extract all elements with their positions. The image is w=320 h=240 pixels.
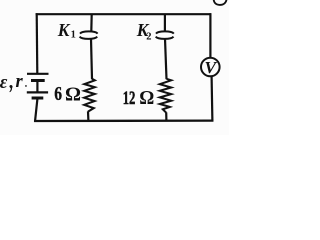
wire left (top segment, from top-left corner to battery)	[36, 13, 39, 73]
stray speck after r	[25, 85, 27, 87]
branch 1 wire (switch K1 to resistor)	[91, 39, 92, 80]
switch K1 bottom arc	[80, 37, 98, 39]
switch K1 top arc	[80, 31, 98, 33]
stray letter fragment (bottom of a 'g') at top-right	[214, 0, 227, 5]
wire between battery cells	[36, 81, 38, 93]
switch K2 bottom arc	[156, 37, 174, 39]
svg-text:r: r	[16, 72, 24, 92]
battery E (cell 2 long plate)	[27, 91, 48, 93]
svg-text:Ω: Ω	[65, 84, 81, 106]
switch K2 top arc	[156, 31, 174, 33]
branch 2 wire (top wire to switch K2)	[164, 14, 166, 31]
svg-text:6: 6	[54, 82, 62, 104]
voltmeter V circle	[201, 58, 220, 77]
svg-text:ε: ε	[0, 73, 8, 93]
battery E (cell 1 long plate)	[27, 73, 49, 75]
comma of battery label	[9, 85, 12, 92]
wire left (bottom segment, battery to bottom-left corner)	[35, 98, 38, 122]
wire top	[36, 13, 212, 15]
resistor R1 6 ohm zigzag	[84, 79, 95, 112]
battery E (cell 1 short thick plate)	[31, 79, 45, 82]
svg-text:K: K	[57, 20, 71, 40]
svg-text:1: 1	[71, 30, 76, 41]
branch 2 wire (resistor to bottom wire)	[165, 112, 167, 121]
branch 2 wire (switch K2 to resistor)	[165, 39, 167, 80]
wire right (bottom, voltmeter to bottom-right corner)	[211, 77, 214, 122]
resistor R2 12 ohm zigzag	[160, 79, 171, 113]
battery E (cell 2 short thick plate)	[32, 97, 44, 100]
svg-text:12: 12	[123, 86, 136, 109]
wire bottom	[34, 119, 213, 122]
branch 1 wire (resistor to bottom wire)	[87, 111, 90, 121]
svg-text:Ω: Ω	[139, 88, 154, 110]
svg-text:V: V	[205, 58, 218, 77]
background paper	[0, 0, 229, 135]
svg-text:2: 2	[146, 32, 151, 43]
branch 1 wire (top wire to switch K1)	[90, 14, 93, 31]
wire right (top, corner to voltmeter)	[209, 13, 211, 57]
